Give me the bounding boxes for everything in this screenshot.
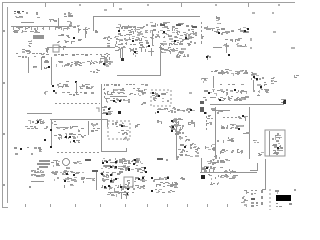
resistor R4 (77, 25, 81, 33)
component row 3 (155, 189, 175, 193)
wire (27, 113, 52, 115)
net label W (294, 75, 299, 78)
transistor Q5 (271, 77, 277, 84)
title col 1 labels (251, 190, 257, 191)
bus label (160, 24, 165, 26)
resistor R25 (238, 115, 244, 119)
relay contacts (152, 92, 169, 102)
junction (44, 139, 46, 141)
psu row 4 left (102, 176, 119, 183)
transistor Q4 (206, 55, 211, 60)
junction (151, 190, 153, 192)
capacitor C9 (216, 16, 221, 24)
dark blob (201, 175, 205, 179)
value label row (25, 126, 48, 128)
wire bus (210, 104, 283, 106)
capacitor C14 (257, 84, 262, 88)
junction (204, 112, 206, 114)
IC U4 cluster (150, 22, 197, 46)
component row 2 (177, 143, 200, 158)
wire (41, 57, 43, 70)
resistor R1 value row (16, 26, 43, 28)
component row 2 (54, 133, 86, 140)
junction (151, 177, 153, 179)
wire bus input (11, 26, 72, 28)
resistor R18 (201, 78, 208, 83)
dark module (200, 101, 204, 104)
component box (217, 110, 223, 114)
resistor R15 (90, 69, 100, 73)
psu row 4 right (134, 176, 147, 182)
symbol row (56, 60, 111, 67)
component row (211, 69, 248, 76)
component row (253, 88, 269, 93)
output row 2 (202, 166, 223, 172)
notes text (31, 168, 45, 177)
net label (250, 47, 252, 49)
wire (226, 43, 228, 53)
notes block line1 (39, 160, 50, 162)
capacitor C10 (223, 44, 229, 50)
IC U4 lower pins (159, 47, 186, 55)
ground symbol (119, 192, 129, 199)
psu row 2 (101, 165, 138, 171)
tone circuit row (51, 160, 60, 167)
wire (93, 16, 95, 31)
title col 1 labels c (251, 202, 258, 204)
component (73, 161, 82, 164)
resistor R16 row (79, 84, 94, 89)
wire (dashed) (104, 84, 106, 100)
resistor R24 (157, 120, 162, 124)
wire (76, 82, 78, 95)
title col 1 labels d (251, 205, 258, 207)
resistor row labels (16, 53, 45, 54)
component box (170, 182, 178, 188)
bus label 2 (176, 24, 181, 26)
wire (213, 47, 222, 49)
junction (20, 148, 22, 150)
sheet border outer left (2, 2, 4, 208)
driver cluster top (102, 106, 113, 115)
wire bus (94, 16, 201, 18)
note dot (29, 186, 31, 188)
capacitor C13 (133, 53, 138, 57)
bus label dark (192, 26, 197, 28)
label row (220, 84, 244, 85)
dark dash (85, 159, 91, 161)
label (180, 177, 185, 180)
wire (265, 159, 267, 190)
dark dash (157, 158, 163, 160)
bridge rectifier box (124, 177, 133, 187)
capacitor C12 (74, 62, 78, 66)
resistor R14 (44, 66, 50, 69)
wire (107, 119, 109, 127)
component row (51, 170, 84, 176)
net label (291, 47, 295, 49)
component (232, 175, 238, 179)
IC U3 cluster (114, 24, 150, 53)
TM mark (275, 190, 279, 194)
label (253, 140, 259, 143)
title block divider (dashed) (269, 189, 271, 210)
wire foot (262, 189, 266, 191)
resistor R17 (141, 102, 146, 105)
wire (100, 119, 108, 121)
capacitor C19 (211, 108, 216, 111)
wire (28, 57, 30, 73)
output row 1 (207, 159, 230, 164)
IC U7 cells (110, 88, 125, 95)
psu row 1 (102, 158, 143, 165)
wire (160, 45, 162, 75)
capacitor C20 marks (66, 167, 70, 169)
wire (117, 75, 161, 77)
wire (126, 148, 128, 152)
diode D2 cluster (251, 72, 259, 81)
capacitor C17 (52, 121, 57, 125)
power box (265, 130, 285, 156)
component row 2 (156, 182, 178, 187)
KORG logo (276, 195, 291, 201)
junction (73, 37, 75, 39)
notes block line3 (39, 166, 48, 168)
capacitor C15 (257, 94, 260, 96)
IC U7 left pins (103, 89, 110, 95)
value labels b (91, 130, 98, 132)
arrow head (121, 58, 124, 61)
notes block line2 (37, 163, 50, 165)
title block dark dash (251, 198, 255, 200)
transformer T1 mark (281, 99, 286, 105)
resistor R19 (259, 77, 264, 80)
junction (50, 129, 52, 131)
component row 4 (214, 155, 220, 159)
series resistors on bus (224, 169, 236, 176)
wire (213, 76, 215, 88)
resistor R12 row (225, 38, 242, 42)
psu row 5 (101, 184, 145, 191)
component row 2 (204, 89, 247, 96)
relay RY1 box (dashed) (151, 90, 171, 106)
value labels (55, 92, 94, 94)
wire (101, 84, 103, 152)
wire (21, 22, 34, 24)
component left (205, 144, 215, 151)
wire (31, 181, 44, 183)
junction (52, 85, 54, 87)
power box inner line (269, 131, 271, 156)
capacitor C3 (45, 48, 49, 52)
resistor R2 row (13, 30, 40, 33)
wire (120, 49, 122, 58)
label row above IC (106, 84, 148, 86)
wire (96, 172, 98, 190)
sheet border top ticks (45, 3, 280, 7)
wire (51, 119, 53, 146)
transistor Q2 (236, 43, 247, 47)
wire (110, 96, 127, 98)
component row (153, 176, 169, 182)
wire (215, 107, 217, 159)
psu row 3 (100, 171, 123, 177)
wire (250, 170, 257, 172)
capacitor C2 (28, 40, 32, 47)
resistor R8 (78, 39, 82, 41)
title text line 2 (276, 206, 282, 207)
title block divider dots (261, 190, 263, 205)
bridge fill (125, 180, 130, 185)
wire (249, 107, 251, 159)
net dot (26, 12, 28, 14)
wire (47, 47, 115, 49)
component row 2 (217, 137, 234, 143)
label row (14, 147, 41, 149)
capacitor C16 (39, 149, 42, 152)
output row 4 (210, 182, 219, 185)
junction (185, 37, 187, 39)
IC U1 body (33, 35, 44, 39)
ground rail (dashed) (57, 152, 100, 154)
resistor R27 (243, 132, 250, 134)
title col 1 labels b (251, 193, 256, 195)
power box windings (272, 133, 283, 155)
relay coil (112, 122, 128, 127)
resistor R9 (103, 36, 112, 41)
net label (273, 31, 276, 33)
junction (75, 81, 77, 83)
jack J1 symbol (15, 16, 23, 18)
net stub row (148, 51, 162, 53)
pin number row (117, 27, 144, 29)
net label (272, 12, 274, 14)
psu right mid (137, 167, 147, 173)
cluster around bus (169, 118, 184, 135)
psu row 6 (107, 191, 134, 197)
value label row 2 (27, 128, 47, 129)
wire (47, 47, 49, 53)
speck (166, 159, 168, 161)
dark module 2 (200, 107, 204, 112)
net label (250, 38, 252, 41)
resistor R6 (58, 34, 64, 36)
junction (53, 90, 55, 92)
corner mark (96, 108, 99, 112)
wire (88, 121, 90, 135)
wire (201, 158, 203, 172)
junction X (283, 101, 286, 104)
wire bus (200, 172, 257, 174)
resistor R7 row (57, 40, 75, 44)
capacitor C6 (66, 35, 70, 38)
IC U5 cluster (212, 27, 225, 35)
component row (179, 136, 190, 142)
component row 3 (203, 96, 249, 101)
connector marks (201, 36, 204, 44)
dark dash 2 (92, 170, 98, 172)
capacitor C18 (70, 140, 80, 143)
wire (dashed) (223, 117, 237, 119)
label 2 (258, 152, 264, 156)
component row 2 (54, 177, 95, 183)
capacitor C11 (44, 60, 49, 63)
resistor R21 (91, 123, 98, 127)
capacitor C7 (59, 46, 66, 50)
connector CN1 label line2 (14, 13, 21, 14)
resistor R23 (188, 120, 195, 127)
wire stub (58, 18, 60, 26)
check mark (123, 137, 128, 141)
connector cluster (244, 190, 249, 194)
component row 3 (220, 149, 243, 154)
resistor R3 row (56, 24, 76, 31)
ground rail (dashed) (55, 103, 100, 105)
wire (dashed) (206, 112, 208, 130)
resistor row labels 2 (18, 56, 45, 58)
connector cluster 2 (241, 196, 248, 206)
resistor R13 (33, 66, 37, 68)
connector CN1 label (14, 11, 24, 13)
bus stubs (13, 27, 68, 30)
junction large (118, 111, 121, 114)
wire (257, 163, 259, 171)
capacitor C4 (64, 12, 73, 17)
IC U2 pins (83, 27, 90, 34)
resistor R1 value row2 (18, 28, 44, 30)
IC U6 body (57, 81, 69, 88)
resistor R10 (204, 26, 212, 30)
component row (221, 124, 244, 130)
transistor Q1 area (49, 19, 57, 22)
capacitor C8 (107, 43, 110, 47)
variable resistor VR1 (circle) (63, 159, 70, 166)
wire (101, 151, 127, 153)
net label (189, 92, 192, 94)
speck (176, 158, 178, 160)
resistor R11 row (225, 30, 234, 34)
junction (50, 146, 52, 148)
wire (216, 110, 230, 112)
node A marks (22, 49, 31, 53)
label row (41, 54, 110, 56)
component row (56, 126, 84, 132)
sheet border bottom zone numbers (25, 204, 247, 207)
wire (253, 80, 255, 92)
component box (53, 45, 59, 52)
wire (152, 30, 154, 45)
title text line 1 (276, 203, 292, 205)
component (64, 184, 74, 188)
sheet border top (2, 2, 295, 4)
capacitor C5 (67, 21, 72, 24)
wire (dashed) (201, 22, 203, 38)
wire (51, 57, 53, 85)
diode D1 cluster (238, 27, 249, 33)
IC U8 with heatsink (176, 53, 189, 58)
value labels (93, 128, 100, 129)
relay contacts (118, 130, 129, 135)
component row (28, 119, 45, 124)
net label (119, 8, 122, 10)
resistor R5 (95, 30, 98, 33)
component (206, 115, 213, 125)
net label (252, 12, 255, 14)
component box tall (210, 159, 216, 170)
IC U7 right cells (129, 88, 147, 96)
wire stub (141, 48, 143, 52)
wire with arrow (122, 48, 124, 59)
resistor R20 (264, 82, 267, 86)
capacitor C1 (36, 12, 40, 18)
label row 2 (15, 153, 33, 155)
relay RY2 box (dashed) (108, 121, 130, 139)
speck (294, 189, 296, 191)
crystal X1 tick (104, 9, 107, 11)
value labels 2 (69, 94, 79, 96)
wire (85, 28, 87, 38)
component top row (155, 107, 195, 114)
sheet border left ticks (2, 30, 5, 186)
resistor R22 (135, 124, 140, 128)
output row 3 (208, 174, 236, 180)
sheet border inner left (7, 7, 9, 203)
pin row (105, 98, 130, 103)
sheet border bottom-left corner (2, 207, 8, 209)
wire stub (151, 48, 153, 56)
junction (228, 54, 230, 56)
transistor Q3 cluster (100, 53, 113, 67)
wire stub (133, 48, 135, 52)
wire (50, 119, 108, 121)
resistor R26 (244, 116, 248, 121)
wire (176, 118, 178, 159)
ground (44, 91, 48, 95)
